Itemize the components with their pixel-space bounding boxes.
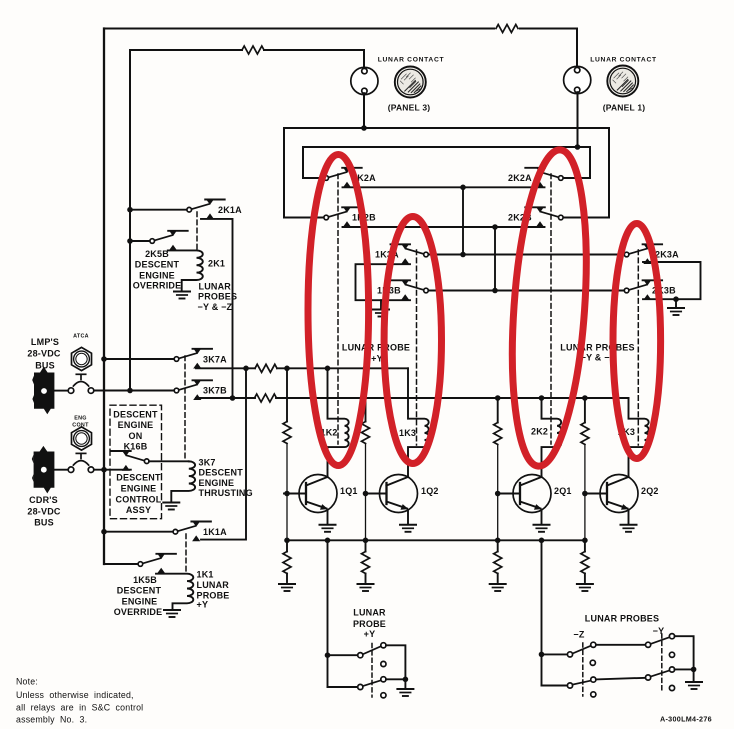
- wire cross-tie 1K2B to 1K3B row: [494, 227, 496, 291]
- switch +Y pole2 NO contact: [381, 677, 386, 682]
- switch -Y pole2 blade: [651, 671, 670, 677]
- svg-text:2K1A: 2K1A: [218, 205, 242, 215]
- node 3K7B pole tie: [127, 388, 133, 394]
- red oval highlight 1K2: [308, 155, 369, 466]
- wire 1K2B-NO to 2K2B-NO: [343, 226, 545, 228]
- ground R8: [577, 584, 593, 591]
- wire 2Q2 emitter stem: [628, 510, 630, 524]
- resistor 3K7B row: [255, 394, 277, 402]
- switch -Z pole1 NO contact: [591, 642, 596, 647]
- nut ENG CONT: [72, 427, 92, 450]
- wire emitter rail: [287, 539, 585, 541]
- wire 1K1A pole: [104, 531, 173, 533]
- wire second feed to panel-3 lamp: [130, 50, 364, 69]
- wire -Z switch pole1: [542, 653, 568, 655]
- resistor 1Q1 base: [283, 422, 291, 444]
- note text: [16, 677, 143, 725]
- connector CDR bus: [32, 446, 55, 494]
- node bus at 1K1A row: [101, 529, 107, 535]
- svg-text:1K1: 1K1: [197, 570, 214, 580]
- circuit breaker ENG CONT: [68, 453, 94, 472]
- wire rail to R8: [584, 540, 586, 551]
- node rail x584: [582, 538, 588, 544]
- label descent engine control assy: [116, 472, 162, 515]
- wire top feed to panel-1 lamp: [104, 29, 577, 68]
- relay contact 1K1A: [173, 521, 211, 541]
- svg-text:LUNAR: LUNAR: [199, 282, 232, 292]
- ground 1K3 bracket: [373, 310, 389, 317]
- wire 1Q2 bias column: [365, 368, 367, 540]
- wire 2K2A pole: [563, 177, 590, 179]
- dashed linkage relay 2K2: [550, 174, 552, 444]
- svg-text:ENG: ENG: [74, 416, 87, 422]
- label 2K1 function: [198, 282, 238, 312]
- svg-text:28-VDC: 28-VDC: [27, 349, 61, 359]
- svg-text:OVERRIDE: OVERRIDE: [114, 607, 163, 617]
- svg-text:ATCA: ATCA: [73, 334, 89, 340]
- wire 2K5B pole: [130, 240, 150, 242]
- ground coil 1K1: [164, 610, 180, 617]
- lamp icon panel 1: [607, 66, 638, 97]
- svg-text:ENGINE: ENGINE: [199, 478, 235, 488]
- wire +Y switch pole2: [328, 686, 358, 688]
- wire -Z NO to -Y pole1: [596, 644, 646, 646]
- svg-text:ENGINE: ENGINE: [118, 420, 154, 430]
- switch -Z pole2 NO contact: [591, 677, 596, 682]
- ground 2Q1 emitter: [534, 525, 550, 532]
- node lamp3 junction on outer loop: [361, 125, 367, 131]
- svg-text:CONTROL: CONTROL: [116, 494, 162, 504]
- label coil 3K7 block: [199, 458, 253, 498]
- svg-text:DESCENT: DESCENT: [199, 468, 244, 478]
- wire K16B pole to 3K7 coil: [149, 460, 189, 462]
- lamp icon panel 3: [395, 67, 426, 98]
- ground coil 3K7: [163, 503, 179, 510]
- svg-text:2K5B: 2K5B: [145, 249, 169, 259]
- switch +Y pole1 NO contact: [381, 643, 386, 648]
- wire inner contact loop (1K2A/2K2A): [303, 147, 590, 178]
- svg-text:2Q1: 2Q1: [554, 486, 572, 496]
- svg-text:LUNAR: LUNAR: [197, 580, 230, 590]
- node rail x287: [284, 538, 290, 544]
- dashed linkage relay 1K2: [337, 174, 339, 444]
- switch +Y pole2: [358, 684, 363, 689]
- wire 1Q1 bias column: [286, 368, 288, 540]
- svg-text:1Q2: 1Q2: [421, 486, 439, 496]
- ground coil 2K1: [174, 292, 190, 299]
- svg-text:DESCENT: DESCENT: [135, 260, 180, 270]
- svg-text:OVERRIDE: OVERRIDE: [133, 281, 182, 291]
- wire 1Q1 emitter stem: [327, 510, 329, 524]
- svg-text:Unless otherwise indicated,: Unless otherwise indicated,: [16, 690, 134, 700]
- svg-text:2Q2: 2Q2: [641, 486, 659, 496]
- ground 2K3 bracket: [668, 308, 684, 315]
- resistor R7 below rail: [494, 552, 502, 574]
- node 2K5B pole tie: [127, 238, 133, 244]
- resistor in panel-3 lamp feed: [242, 46, 264, 54]
- svg-text:2K2A: 2K2A: [508, 173, 532, 183]
- wire lamp panel 1 to inner box: [577, 92, 579, 147]
- svg-text:CONT: CONT: [72, 423, 89, 429]
- svg-text:3K7B: 3K7B: [203, 386, 227, 396]
- coil 2K1: [168, 250, 203, 290]
- node 3K7A row at 1Q2 column: [363, 366, 369, 372]
- svg-text:LUNAR PROBES: LUNAR PROBES: [585, 614, 659, 624]
- svg-text:+Y: +Y: [197, 600, 209, 610]
- dashed link -Y switch: [661, 634, 663, 690]
- node 1Q2 base: [363, 491, 369, 497]
- label coil 1K1 block: [197, 570, 230, 610]
- relay contact 2K3B: [624, 280, 662, 300]
- node cross-tie at 1K3B row: [492, 288, 498, 294]
- node cross-tie at 1K3A row: [460, 252, 466, 258]
- wire rail down to +Y switch: [327, 540, 329, 687]
- label lunar probe +Y mid: [342, 343, 410, 364]
- ground 2Q2 emitter: [621, 525, 637, 532]
- ground R5: [279, 584, 295, 591]
- wire LMP connector to breaker: [55, 390, 68, 392]
- svg-text:−Y & −Z: −Y & −Z: [198, 302, 233, 312]
- switch -Z pole2 NC contact: [591, 692, 596, 697]
- node bus at ENG CONT row: [101, 467, 107, 473]
- wire R6 to ground: [365, 574, 367, 583]
- wire 3K7A output row: [196, 367, 408, 369]
- wire 3K7B pole: [130, 390, 174, 392]
- transistor 1Q2: [365, 475, 418, 513]
- svg-text:PROBES: PROBES: [198, 292, 237, 302]
- svg-text:A-300LM4-276: A-300LM4-276: [660, 715, 712, 724]
- wire 3K7B output row: [196, 397, 629, 399]
- svg-text:DESCENT: DESCENT: [117, 586, 162, 596]
- switch -Y pole2 NC contact: [669, 685, 674, 690]
- switch +Y pole1 blade: [363, 646, 381, 654]
- label 1K5B override block: [114, 575, 163, 617]
- svg-text:Note:: Note:: [16, 677, 38, 687]
- switch +Y pole2 NC contact: [381, 693, 386, 698]
- node +Y ground junction: [403, 677, 409, 683]
- label +Y switch: [353, 608, 386, 640]
- switch -Y pole1 NC contact: [669, 652, 674, 657]
- svg-text:LMP'S: LMP'S: [31, 337, 59, 347]
- wire -Y ground stem: [693, 669, 695, 681]
- wire second vertical: [129, 50, 131, 391]
- node bus at 3K7A row: [101, 356, 107, 362]
- switch +Y pole2 blade: [363, 680, 381, 686]
- dashed linkage relay 2K3: [637, 250, 639, 445]
- svg-text:−Y: −Y: [653, 626, 665, 636]
- node 3K7B row at 2Q1 column: [495, 395, 501, 401]
- switch -Y pole2: [646, 675, 651, 680]
- svg-text:DESCENT: DESCENT: [116, 472, 161, 482]
- svg-text:ENGINE: ENGINE: [122, 596, 158, 606]
- wire 2Q1 bias column: [497, 398, 499, 540]
- wire left bus vertical: [104, 29, 138, 565]
- wire lamp panel 3 to contact box: [363, 93, 365, 128]
- wire ENG CONT breaker output to K16B: [94, 469, 131, 471]
- wire 1K3 NO-contacts bracket: [356, 264, 411, 300]
- node 3K7A row at 1K2 coil feed: [325, 366, 331, 372]
- transistor 2Q1: [498, 475, 551, 513]
- switch -Z pole1 NC contact: [590, 660, 595, 665]
- svg-text:1K3: 1K3: [399, 428, 416, 438]
- relay contact 2K5B: [150, 230, 188, 250]
- svg-text:ENGINE: ENGINE: [139, 270, 175, 280]
- node 3K7B row at 2K2 coil feed: [539, 395, 545, 401]
- svg-text:LUNAR CONTACT: LUNAR CONTACT: [590, 57, 657, 64]
- svg-text:1K1A: 1K1A: [203, 527, 227, 537]
- node -Z switch pole1 branch: [539, 652, 545, 658]
- red oval highlight 2K2: [503, 147, 596, 468]
- svg-text:ASSY: ASSY: [126, 505, 151, 515]
- switch -Z pole2: [567, 683, 572, 688]
- svg-text:LUNAR PROBE: LUNAR PROBE: [342, 343, 410, 353]
- dashed linkage relay 1K1: [185, 534, 187, 573]
- red oval highlight 2K3: [613, 224, 661, 459]
- svg-text:ON: ON: [129, 431, 143, 441]
- relay contact 1K3B: [391, 280, 429, 300]
- wire 2K2B pole: [563, 217, 609, 219]
- svg-text:+Y: +Y: [364, 629, 376, 639]
- wire +Y ground stem: [404, 679, 406, 688]
- svg-text:−Z: −Z: [573, 630, 584, 640]
- svg-text:CDR'S: CDR'S: [29, 495, 58, 505]
- svg-text:1K5B: 1K5B: [133, 575, 157, 585]
- svg-text:3K7: 3K7: [199, 458, 216, 468]
- node +Y switch pole1 branch: [325, 652, 331, 658]
- wire -Z switch pole2: [542, 685, 568, 687]
- svg-text:2K2: 2K2: [531, 427, 548, 437]
- wire 1Q2 emitter stem: [407, 510, 409, 524]
- resistor in panel-1 lamp feed: [496, 25, 518, 33]
- svg-text:3K7A: 3K7A: [203, 355, 227, 365]
- svg-text:ENGINE: ENGINE: [121, 483, 157, 493]
- wire 1K2A-NO to 2K2A-NO: [343, 186, 545, 188]
- wire +Y switch pole1: [328, 654, 358, 656]
- svg-text:LUNAR: LUNAR: [353, 608, 386, 618]
- resistor 3K7A row: [255, 364, 277, 372]
- switch -Z pole1: [567, 652, 572, 657]
- node 2K1A pole tie: [127, 207, 133, 213]
- node rail x365: [363, 538, 369, 544]
- label CDR bus: [27, 495, 61, 528]
- node 3K7A row to 1K1A branch: [243, 366, 249, 372]
- relay contact K16B: [111, 451, 149, 471]
- wire 2K1A pole: [130, 209, 187, 211]
- ground 1Q1 emitter: [320, 525, 336, 532]
- svg-text:PROBE: PROBE: [353, 619, 386, 629]
- wire 1K3 bracket ground stem: [380, 300, 382, 308]
- relay contact 2K1A: [187, 199, 225, 219]
- dashed linkage relay 3K7: [184, 356, 186, 460]
- wire CDR connector to breaker: [55, 469, 68, 471]
- wire R5 to ground: [286, 574, 288, 583]
- label 2K5B override block: [133, 249, 182, 291]
- ground -Y switch: [686, 682, 702, 689]
- wire 1K3A pole to 2K3A pole: [428, 254, 624, 256]
- node rail x497: [495, 538, 501, 544]
- wire rail to R6: [365, 540, 367, 551]
- node 2K1A tie at 3K7B row: [230, 395, 236, 401]
- wire -Y contacts to ground: [675, 636, 694, 669]
- wire 1K2B pole: [284, 217, 324, 219]
- lamp DS1 panel 3: [351, 67, 378, 94]
- resistor 2Q1 base: [494, 423, 502, 445]
- relay contact 1K3A: [391, 244, 429, 264]
- wire rail to R7: [497, 540, 499, 551]
- switch +Y pole1: [358, 653, 363, 658]
- coil 2K3: [629, 398, 649, 477]
- svg-text:BUS: BUS: [35, 361, 55, 371]
- label ENG CONT: [72, 416, 89, 429]
- coil 1K3: [408, 368, 429, 477]
- node -Y ground junction: [691, 667, 697, 673]
- connector LMP bus: [32, 367, 54, 414]
- svg-text:(PANEL 3): (PANEL 3): [388, 103, 431, 113]
- relay contact 1K2B: [324, 207, 362, 227]
- node 3K7B row at 2Q2 column: [582, 395, 588, 401]
- svg-text:all relays are in S&C control: all relays are in S&C control: [16, 702, 143, 712]
- coil 1K2: [328, 368, 349, 477]
- wire ATCA breaker output: [94, 390, 130, 392]
- svg-text:28-VDC: 28-VDC: [27, 507, 61, 517]
- node 2K3 bracket ground junction: [673, 296, 679, 302]
- wire 2Q2 bias column: [584, 398, 586, 540]
- svg-text:K16B: K16B: [124, 442, 148, 452]
- wire -Z pole2 NO to -Y pole2: [596, 678, 646, 680]
- wire R8 to ground: [584, 574, 586, 583]
- dashed box descent engine control assy: [110, 405, 162, 519]
- node rail x541: [539, 538, 545, 544]
- nut ATCA: [72, 347, 92, 370]
- lamp DS2 panel 1: [564, 66, 591, 93]
- relay contact 2K2B: [525, 207, 563, 227]
- wire outer contact loop (1K2B/2K2B): [284, 128, 609, 218]
- resistor R5 below rail: [283, 552, 291, 574]
- dashed linkage relay 2K1: [196, 212, 198, 249]
- label descent engine on K16B: [113, 409, 158, 451]
- switch -Y pole1 NO contact: [669, 634, 674, 639]
- resistor 1Q2 base: [362, 422, 370, 444]
- svg-text:2K1: 2K1: [208, 259, 225, 269]
- label lunar probes right: [560, 343, 634, 363]
- switch -Z pole1 blade: [573, 646, 591, 654]
- transistor 2Q2: [585, 475, 638, 513]
- node 1Q1 base: [284, 491, 290, 497]
- relay contact 2K2A: [525, 167, 563, 187]
- resistor 2Q2 base: [581, 423, 589, 445]
- resistor R6 below rail: [362, 552, 370, 574]
- switch +Y pole1 NC contact: [381, 661, 386, 666]
- ground R6: [358, 584, 374, 591]
- ground 1Q2 emitter: [400, 525, 416, 532]
- relay contact 3K7B: [174, 380, 212, 400]
- dashed link +Y switch: [371, 644, 373, 698]
- label LMP bus: [27, 337, 61, 371]
- wire rail to R5: [286, 540, 288, 551]
- wire 1K2A pole: [303, 177, 324, 179]
- wire 2Q1 emitter stem: [541, 510, 543, 524]
- ground +Y switch: [397, 689, 413, 696]
- coil 1K1: [156, 574, 193, 609]
- node lamp1 junction on inner loop: [575, 144, 581, 150]
- dashed linkage relay 1K3: [416, 250, 418, 445]
- svg-text:assembly No. 3.: assembly No. 3.: [16, 715, 87, 725]
- svg-text:(PANEL 1): (PANEL 1): [603, 103, 646, 113]
- svg-text:THRUSTING: THRUSTING: [199, 488, 253, 498]
- svg-text:1Q1: 1Q1: [340, 486, 358, 496]
- wire 1K3B pole to 2K3B pole: [428, 290, 624, 292]
- switch -Z pole2 blade: [573, 681, 591, 685]
- red oval highlight 1K3: [384, 217, 441, 464]
- svg-text:2K3A: 2K3A: [655, 250, 679, 260]
- wire branch down to 1K1A contact: [201, 368, 246, 539]
- wire cross-tie 1K2A to 1K3A row: [462, 187, 464, 254]
- node 2Q1 base: [495, 491, 501, 497]
- relay contact 1K2A: [324, 167, 362, 187]
- node on 1K2A-NO wire: [460, 185, 466, 191]
- relay contact 3K7A: [174, 348, 212, 368]
- wire 2K3 bracket ground stem: [675, 299, 677, 307]
- wire 2K1A-NO down to 3K7B row: [201, 219, 233, 398]
- svg-text:LUNAR PROBES: LUNAR PROBES: [560, 343, 634, 353]
- node 2Q2 base: [582, 491, 588, 497]
- switch -Y pole2 NO contact: [669, 667, 674, 672]
- node rail x327: [325, 538, 331, 544]
- wire 3K7A pole: [104, 358, 174, 360]
- switch -Y pole1: [646, 642, 651, 647]
- ground R7: [490, 584, 506, 591]
- resistor R8 below rail: [581, 552, 589, 574]
- transistor 1Q1: [284, 475, 337, 513]
- coil 3K7: [171, 461, 195, 501]
- dashed link -Z switch: [582, 643, 584, 696]
- svg-text:DESCENT: DESCENT: [113, 409, 158, 419]
- relay contact 2K3A: [624, 244, 662, 264]
- circuit breaker ATCA: [68, 374, 94, 393]
- svg-text:BUS: BUS: [34, 518, 54, 528]
- wire rail down to -Z switch: [541, 540, 543, 685]
- relay contact 1K5B: [138, 553, 176, 573]
- node on 1K2B-NO wire: [492, 224, 498, 230]
- node 3K7A row at 1Q1 column: [284, 366, 290, 372]
- wire +Y contacts to ground: [386, 645, 405, 679]
- svg-text:LUNAR CONTACT: LUNAR CONTACT: [378, 57, 445, 64]
- wire R7 to ground: [497, 574, 499, 583]
- switch -Y pole1 blade: [651, 637, 670, 644]
- wire 2K3 NO-contacts bracket: [643, 262, 701, 299]
- coil 2K2: [542, 398, 562, 477]
